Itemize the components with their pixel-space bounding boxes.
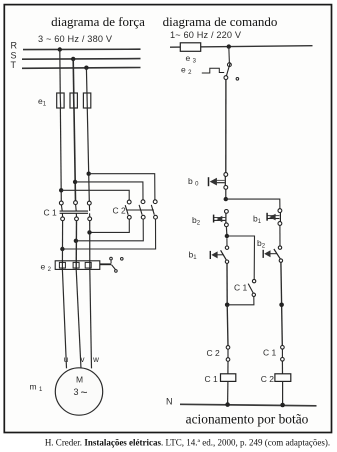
wire e2 to motor v — [76, 269, 81, 368]
wire node A to right branch — [226, 199, 280, 209]
wire b1 left down to J1 — [226, 263, 228, 304]
fuse e1 pole 1 — [57, 93, 64, 108]
svg-text:C 1: C 1 — [263, 348, 277, 358]
wire C2 pole3 bottom to L1 — [62, 219, 155, 249]
svg-text:H. Creder. Instalações elétric: H. Creder. Instalações elétricas. LTC, 1… — [45, 438, 330, 448]
junction T to C2 — [87, 172, 91, 176]
svg-text:C 1: C 1 — [234, 283, 248, 293]
contactor C2 linkage bar — [127, 209, 154, 211]
wire S branch to C2 pole2 — [75, 182, 143, 200]
svg-text:C 2: C 2 — [261, 374, 275, 384]
pushbutton b0 (NC stop) — [224, 173, 228, 177]
wire C2 coil to N — [282, 381, 284, 405]
svg-text:T: T — [11, 60, 17, 70]
pushbutton b2 left (NC interlock) — [225, 210, 229, 214]
wire phase T horizontal — [22, 67, 141, 70]
node B junction — [225, 234, 229, 238]
junction on L2 — [74, 239, 78, 243]
contactor C1 pole 3 — [87, 201, 91, 205]
junction on L3 — [87, 230, 91, 234]
wire b0 to node A — [225, 189, 227, 199]
coil C2 — [275, 374, 291, 382]
junction on phase line — [227, 44, 231, 48]
svg-text:diagrama de força: diagrama de força — [51, 14, 145, 29]
wire junction to e2 contact — [228, 47, 231, 63]
svg-text:u: u — [64, 355, 68, 364]
svg-text:C 2: C 2 — [113, 206, 127, 216]
coil C1 — [221, 374, 236, 382]
fuse e3 — [180, 43, 200, 52]
svg-text:3: 3 — [73, 387, 78, 397]
wire T branch to C2 pole3 — [89, 174, 155, 201]
wire C2 pole1 bottom to L3 — [90, 219, 130, 232]
junction C1 coil on N — [225, 402, 230, 407]
motor m1 circle — [55, 368, 102, 415]
svg-text:~: ~ — [80, 386, 87, 400]
svg-text:3 ~ 60 Hz / 380 V: 3 ~ 60 Hz / 380 V — [38, 34, 113, 44]
seal contact C1 (NO aux) — [252, 279, 255, 282]
wire L1 C1-to-e2 — [61, 221, 63, 270]
aux contact C2 NC (left branch) — [226, 346, 230, 350]
junction R — [58, 47, 62, 51]
junction T — [84, 66, 88, 70]
wire e2 to motor w — [90, 269, 92, 368]
e2 aux contact NO terminal — [121, 258, 124, 261]
wire R branch to C2 pole1 — [61, 190, 129, 200]
svg-text:N: N — [166, 397, 173, 407]
wire C2 NC to C1 coil — [227, 361, 229, 374]
svg-text:S: S — [11, 51, 17, 61]
neutral line N — [180, 404, 317, 406]
e2 comando NO terminal — [236, 78, 239, 81]
fuse e1 pole 2 — [70, 93, 77, 108]
wire b2 to node B — [225, 227, 228, 236]
contactor C2 pole 2 — [141, 200, 145, 204]
node A junction — [224, 197, 228, 201]
e2 trip linkage line — [100, 263, 111, 265]
wire left rail e2 to b0 — [225, 80, 227, 173]
wire b2 right down right rail — [281, 262, 282, 345]
wire J1 to C2 NC — [226, 305, 229, 346]
wire C2 pole2 bottom to L2 — [76, 219, 143, 241]
wire L1 (R phase vertical) — [60, 50, 62, 202]
wire L2 (S phase vertical) — [73, 59, 75, 201]
svg-text:v: v — [81, 355, 85, 364]
overload relay e2 (força) box — [55, 261, 100, 270]
e2 aux contact common — [112, 265, 116, 270]
contactor C1 pole 2 — [74, 201, 78, 205]
wire C1 coil to N — [227, 381, 229, 404]
contactor C1 pole 1 — [59, 201, 63, 205]
wire L3 C1-to-e2 — [89, 221, 91, 270]
svg-text:w: w — [92, 355, 99, 364]
e2 heater element 1 — [59, 262, 65, 268]
pushbutton b1 right (NC interlock) — [278, 209, 282, 213]
svg-text:C 2: C 2 — [207, 348, 221, 358]
contactor C1 linkage bar — [60, 210, 88, 212]
wire b1 right to b2 right — [279, 225, 281, 245]
wire C1 NC to C2 coil — [281, 361, 283, 374]
pushbutton b2 right (NO start) — [278, 246, 281, 249]
aux contact C1 NC (right branch) — [281, 346, 285, 350]
wire node B to C1 seal branch — [227, 236, 255, 279]
junction S to C2 — [73, 180, 77, 184]
junction on L1 — [60, 247, 64, 251]
svg-text:R: R — [11, 41, 18, 51]
svg-text:diagrama de comando: diagrama de comando — [163, 14, 278, 29]
pushbutton b1 left (NO start) — [226, 238, 228, 246]
contactor C2 pole 3 — [153, 200, 157, 204]
junction J1 — [225, 303, 230, 308]
wire phase R horizontal — [23, 48, 141, 50]
wire C1 seal to junction J1 — [227, 297, 254, 305]
junction S — [71, 57, 75, 61]
svg-text:acionamento por botão: acionamento por botão — [186, 412, 309, 427]
e2 comando linkage — [202, 68, 224, 73]
wire phase line 220V — [170, 46, 313, 48]
contactor C2 pole 1 — [127, 200, 131, 204]
svg-text:C 1: C 1 — [44, 208, 58, 218]
wire L3 (T phase vertical) — [86, 68, 89, 202]
wire phase S horizontal — [22, 58, 141, 61]
wire e2 to motor u — [62, 269, 66, 368]
fuse e1 pole 3 — [83, 93, 90, 108]
svg-text:M: M — [76, 375, 83, 385]
wire L2 C1-to-e2 — [75, 221, 77, 270]
e2 aux contact NC terminal — [110, 257, 113, 260]
junction R to C2 — [59, 188, 63, 192]
svg-text:1~ 60 Hz / 220 V: 1~ 60 Hz / 220 V — [170, 30, 242, 40]
overload NC contact e2 (comando) — [228, 63, 232, 67]
e2 heater element 2 — [73, 262, 79, 268]
e2 heater element 3 — [85, 262, 91, 268]
svg-text:C 1: C 1 — [205, 374, 219, 384]
junction C2 coil on N — [280, 403, 285, 408]
junction dot right rail — [279, 303, 284, 308]
